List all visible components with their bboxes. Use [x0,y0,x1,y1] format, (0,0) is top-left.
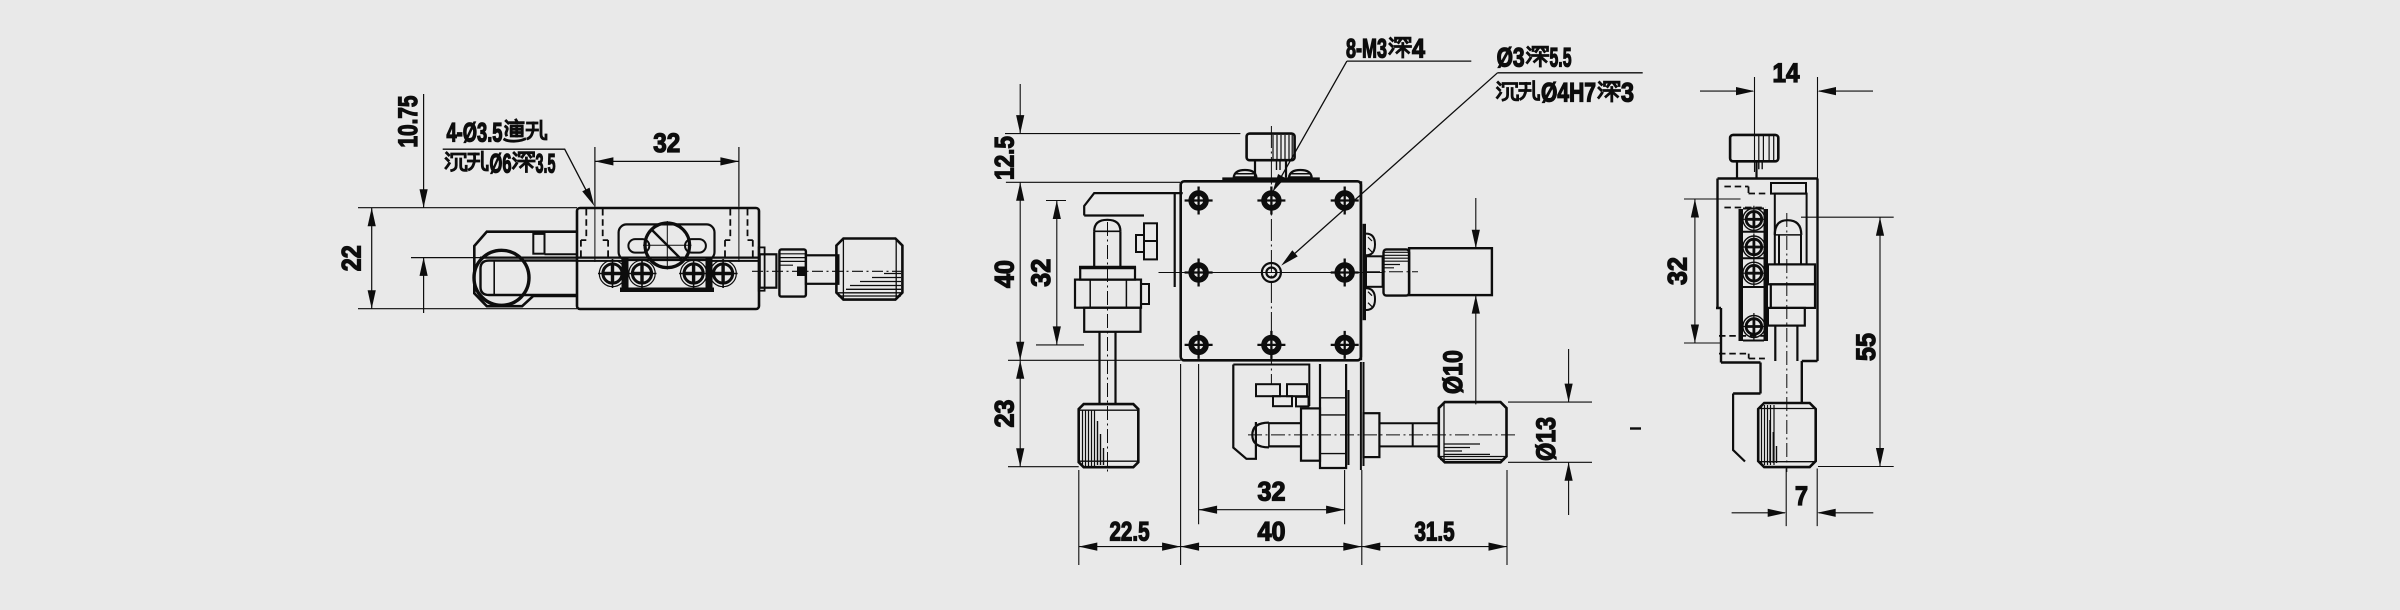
svg-text:Ø4H7: Ø4H7 [1541,78,1596,108]
clips [1144,223,1157,241]
main square plate [1181,181,1361,360]
clamp screw circle [645,223,690,268]
side plate [760,254,777,287]
svg-text:22: 22 [337,245,367,271]
dimension 14 [1817,77,1819,179]
square edges extended down [1360,362,1362,470]
horizontal plunger [1252,423,1269,448]
barrel Ø10 [1409,248,1492,295]
mid plane line [411,257,480,259]
stray tick mark [1630,427,1641,429]
dimension 22.5 [1079,364,1181,565]
flanges [1768,264,1815,284]
center hole Ø3 with counterbore [1266,268,1276,278]
svg-text:32: 32 [1026,259,1056,287]
svg-text:4-Ø3.5: 4-Ø3.5 [447,118,503,148]
carriage body [481,261,578,295]
screw bump top [1366,234,1375,256]
svg-text:4: 4 [1412,34,1425,64]
dimension 32 (left view) [595,147,739,206]
left bracket [1084,193,1183,287]
screws column [1740,206,1767,233]
body outline [1716,179,1818,404]
svg-text:31.5: 31.5 [1415,517,1455,547]
dimension 10.75 [423,94,425,313]
top clip block [1771,183,1806,194]
clamp plate edges between bars [1743,209,1764,341]
dimension 7 [1786,469,1817,527]
dimension 22 [371,208,373,309]
knob neck [1255,161,1286,178]
label counterbore Ø4H7 depth 3 [1497,83,1517,101]
svg-text:55: 55 [1851,333,1881,361]
knob (left view) [836,239,902,300]
svg-text:14: 14 [1773,58,1800,88]
side tab [759,247,765,290]
plunger housing [1775,194,1807,265]
svg-text:32: 32 [1258,477,1286,507]
screw shaft [1100,332,1116,404]
J bracket [1233,365,1256,459]
svg-text:40: 40 [1258,517,1286,547]
top knob (right view) [1730,135,1778,161]
base plate top edge segments [577,260,759,262]
dimension 32 (left) [1036,201,1084,345]
leader 8-M3 [1275,61,1472,189]
micrometer body [1075,280,1141,308]
shaft [806,255,839,283]
dimension Ø10 [1475,198,1477,404]
screws row [598,259,627,288]
flange B [1320,364,1346,468]
clamp bars [622,257,629,291]
dimension 55 [1801,217,1894,466]
slot right [685,239,706,253]
flange A [1301,408,1320,460]
dimension 23 [1019,360,1021,466]
svg-text:12.5: 12.5 [990,136,1020,180]
slot left [628,239,649,253]
svg-text:32: 32 [1663,257,1693,285]
right spring dome [1289,170,1312,177]
svg-text:Ø10: Ø10 [1438,350,1468,394]
bottom mechanism top line [1233,365,1309,407]
svg-text:40: 40 [990,260,1020,288]
left lower bracket [1733,394,1745,462]
svg-text:23: 23 [990,400,1020,428]
svg-text:7: 7 [1795,481,1808,511]
hidden hole left (Ø3.5 + c'bore Ø6) [581,209,608,257]
hidden slots top [1724,187,1765,208]
center lines of square [1159,272,1384,274]
knob axis [1754,77,1756,172]
knurled nut [779,249,806,296]
svg-text:Ø13: Ø13 [1531,417,1561,461]
svg-text:Ø6: Ø6 [490,149,512,179]
extension line bottom surface [358,308,577,310]
hidden hole right [725,209,753,257]
svg-text:5.5: 5.5 [1550,43,1572,73]
roller circle [474,250,529,305]
leader Ø3 [1284,73,1643,263]
knob neck [1737,161,1757,178]
dimension Ø13 [1508,402,1592,462]
plunger dome [1094,220,1120,232]
dimension 40 (left) [1019,182,1021,360]
bottom rail bar [620,288,714,293]
spacer block [1366,256,1383,287]
axis center line [752,270,906,272]
svg-text:3: 3 [1621,78,1634,108]
hidden slots bottom [1719,336,1765,359]
nut [1364,413,1380,457]
main block (top plate) [577,208,759,309]
bottom knob (right view) [1758,403,1816,467]
svg-text:22.5: 22.5 [1110,517,1150,547]
plunger flange [1080,268,1135,280]
M3 holes (8x) [1185,187,1213,215]
stem [1775,326,1797,361]
svg-text:10.75: 10.75 [393,96,423,148]
dimension 40 (bottom) [1181,546,1362,548]
carriage (left sub-assembly) [474,232,577,307]
svg-text:3.5: 3.5 [536,149,556,179]
micrometer lower block [1084,308,1140,332]
screw bump bottom [1366,288,1375,310]
dimension 32 (right view) [1684,199,1741,343]
svg-text:8-M3: 8-M3 [1346,34,1387,64]
carriage top tab [533,234,544,254]
bottom left knob [1079,404,1139,467]
leader 4-Ø3.5 [443,149,592,201]
top knob [1247,134,1295,161]
side plate right [1363,224,1366,320]
label counterbore Ø6 depth 3.5 [446,153,466,171]
bottom right knob [1439,402,1507,462]
extension line top surface [358,207,577,209]
dimension 32 (bottom) [1199,364,1345,524]
svg-text:Ø3: Ø3 [1497,43,1525,73]
mid axis line [1366,271,1418,273]
top plate strip [1222,177,1320,181]
knurl section [1384,249,1410,295]
left spring dome [1234,170,1257,177]
dimension 12.5 [1005,133,1240,135]
center clamp plate [619,224,715,260]
clamp bars (right view) [1739,209,1744,341]
axis line bottom drive [1248,434,1515,436]
svg-text:32: 32 [653,128,680,158]
plunger dome (right view) [1775,220,1802,235]
dimension 31.5 [1362,470,1507,565]
clip stack [1256,384,1280,396]
axis center line [1786,213,1788,472]
drive shaft [1379,423,1438,446]
